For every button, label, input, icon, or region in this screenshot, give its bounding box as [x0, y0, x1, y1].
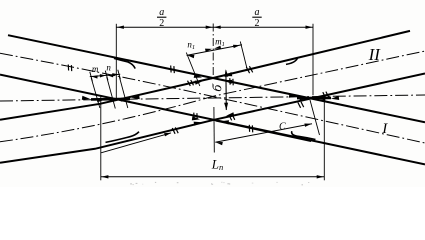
svg-text:2: 2 — [255, 18, 260, 29]
svg-text:n: n — [106, 62, 111, 72]
svg-text:a: a — [159, 7, 164, 18]
svg-text:m: m — [92, 64, 99, 74]
svg-text:C: C — [279, 121, 286, 132]
svg-text:2: 2 — [159, 18, 164, 29]
svg-text:I: I — [381, 121, 388, 137]
svg-text:II: II — [368, 45, 382, 64]
svg-text:a: a — [255, 7, 260, 18]
